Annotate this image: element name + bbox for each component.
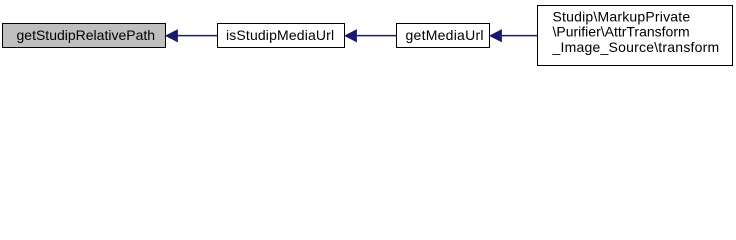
node getMediaUrl [397, 24, 490, 48]
svg-text:getStudipRelativePath: getStudipRelativePath [17, 27, 156, 43]
arrowhead into isStudipMediaUrl [345, 30, 356, 42]
wire edge shaft: transform to getMediaUrl [501, 35, 538, 37]
svg-text:isStudipMediaUrl: isStudipMediaUrl [226, 27, 334, 43]
node getStudipRelativePath (current node, grey) [3, 24, 166, 48]
wire edge shaft: isStudipMediaUrl to getStudipRelativePath [177, 35, 218, 37]
svg-text:Studip\MarkupPrivate: Studip\MarkupPrivate [553, 8, 691, 24]
node Studip\MarkupPrivate\Purifier\AttrTransform_Image_Source\transform [538, 6, 733, 66]
svg-text:_Image_Source\transform: _Image_Source\transform [552, 39, 720, 55]
svg-text:getMediaUrl: getMediaUrl [406, 27, 484, 43]
arrowhead into getStudipRelativePath [166, 30, 177, 42]
node isStudipMediaUrl [218, 24, 345, 48]
wire edge shaft: getMediaUrl to isStudipMediaUrl [356, 35, 397, 37]
arrowhead into getMediaUrl [490, 30, 501, 42]
svg-text:\Purifier\AttrTransform: \Purifier\AttrTransform [553, 24, 690, 40]
